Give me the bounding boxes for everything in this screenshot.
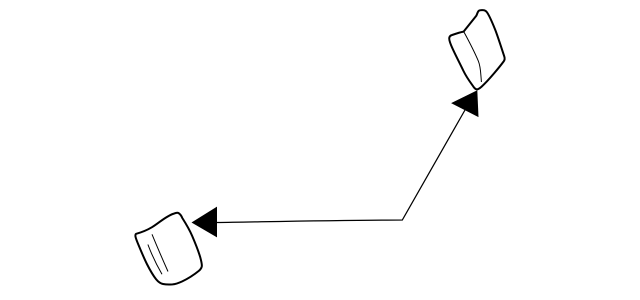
lower pad outline (135, 213, 201, 285)
arrowhead to lower pad (192, 207, 218, 238)
lower pad crease line right (152, 234, 168, 271)
arrowhead to upper pad (451, 90, 478, 117)
upper pad outline (449, 10, 504, 89)
lower pad crease line left (148, 245, 162, 275)
upper pad crease line (464, 32, 482, 82)
leader line (horizontal then diagonal) (217, 110, 465, 223)
